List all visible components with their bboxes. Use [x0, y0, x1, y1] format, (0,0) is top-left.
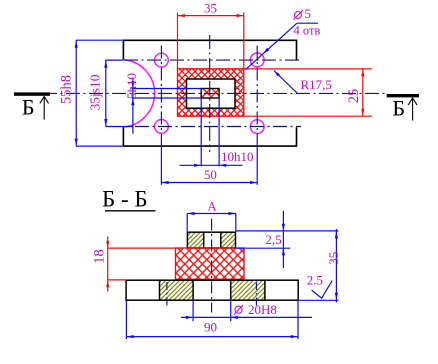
- svg-text:Б: Б: [22, 95, 35, 120]
- centerline vertical main top view: [209, 35, 211, 152]
- dimension 55h8: [75, 40, 124, 146]
- plate hatch right: [231, 280, 265, 300]
- svg-text:R17,5: R17,5: [301, 77, 332, 92]
- red block outline: [176, 248, 245, 279]
- semicircular notch arc R17.5: [123, 60, 154, 127]
- slot line upper: [132, 88, 201, 90]
- section mark left arrow: [40, 97, 49, 120]
- leader diameter 5: [246, 23, 319, 69]
- hole bottom-left: [155, 120, 169, 134]
- svg-text:90: 90: [204, 319, 217, 334]
- dimension 25 red right: [361, 69, 364, 116]
- dimension diameter 20H8: [181, 300, 312, 321]
- centerline horizontal main: [20, 92, 388, 94]
- sleeve hatch right: [221, 232, 236, 248]
- section mark right arrow: [408, 98, 417, 121]
- dimension 50: [161, 146, 257, 185]
- centerline hole column right: [256, 46, 258, 147]
- chamfer note 2.5: [312, 281, 333, 299]
- title underline: [105, 210, 156, 212]
- centerline hole column left: [160, 46, 162, 147]
- red insert outer rect: [178, 69, 244, 116]
- plate hatch left: [160, 280, 194, 300]
- hole axis right section: [255, 282, 257, 306]
- text diameter 20H8: [234, 305, 243, 315]
- plate outline: [126, 280, 298, 300]
- hole top-right: [250, 53, 264, 67]
- dimension 5h10: [131, 78, 134, 134]
- svg-text:18: 18: [92, 249, 108, 264]
- dimension 35 right section: [298, 229, 338, 302]
- dimension 18 red left: [106, 237, 175, 292]
- dimension 35js10: [104, 60, 133, 127]
- part outline top view: [123, 40, 296, 146]
- svg-text:Б: Б: [392, 96, 405, 121]
- svg-text:55h8: 55h8: [59, 75, 75, 104]
- dimension A: [187, 212, 236, 232]
- centerline hole row bottom: [135, 126, 301, 128]
- centerline hole row top: [124, 59, 301, 61]
- svg-text:50: 50: [204, 167, 217, 182]
- section mark left bar: [14, 92, 50, 95]
- svg-text:35: 35: [204, 0, 217, 15]
- red insert crosshatch ring: [178, 69, 244, 116]
- text diameter 5: [293, 10, 303, 19]
- svg-text:5: 5: [305, 6, 312, 21]
- key witness lines down: [200, 98, 202, 166]
- top block outline: [187, 232, 235, 248]
- svg-text:5h10: 5h10: [124, 73, 139, 99]
- leader R17.5: [274, 71, 297, 94]
- sleeve hatch left: [187, 232, 203, 248]
- key square red hatch: [201, 89, 219, 99]
- hole bottom-right: [250, 120, 264, 134]
- svg-text:А: А: [207, 199, 216, 213]
- svg-text:Б - Б: Б - Б: [102, 187, 148, 212]
- red block hatch: [176, 248, 245, 279]
- svg-text:20H8: 20H8: [248, 302, 277, 317]
- dimension 10h10: [180, 164, 243, 167]
- svg-text:2,5: 2,5: [265, 232, 281, 247]
- dimension 90: [126, 300, 298, 339]
- svg-text:10h10: 10h10: [221, 149, 254, 164]
- section mark right bar: [387, 94, 419, 97]
- key square outline: [201, 89, 219, 99]
- inner bore rect black: [187, 79, 236, 108]
- svg-text:4 отв: 4 отв: [294, 24, 321, 38]
- svg-text:2.5: 2.5: [307, 273, 323, 288]
- svg-text:25: 25: [346, 89, 362, 104]
- svg-text:35: 35: [326, 252, 341, 265]
- dimension 35 red top: [178, 13, 244, 69]
- hole top-left: [155, 53, 169, 67]
- section axis vertical: [211, 219, 213, 313]
- hole axis left section: [166, 282, 168, 306]
- red extension lines right: [244, 68, 372, 70]
- dimension 2,5 upper: [236, 211, 339, 268]
- slot line lower: [132, 97, 201, 99]
- svg-text:35js10: 35js10: [87, 74, 102, 110]
